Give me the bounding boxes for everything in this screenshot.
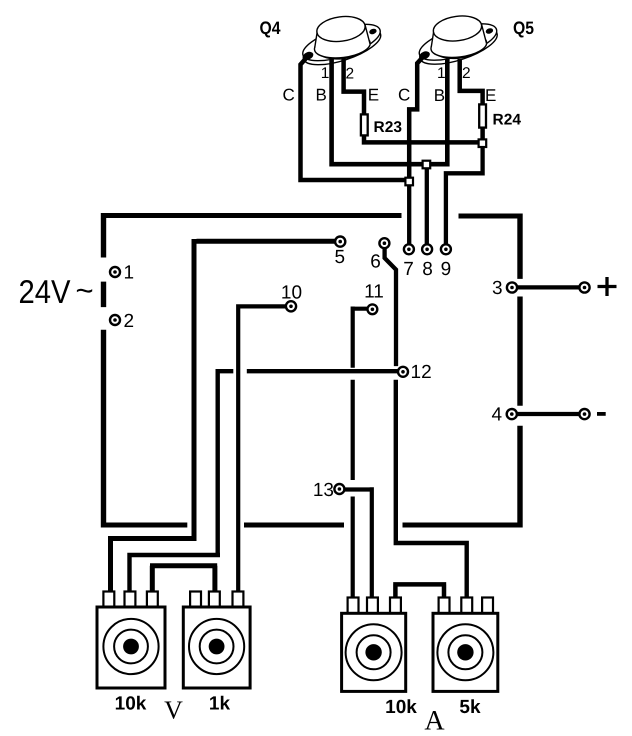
svg-text:7: 7 xyxy=(403,259,414,280)
svg-text:~: ~ xyxy=(76,273,94,308)
node minus output terminal xyxy=(579,409,589,419)
potentiometer A 10k xyxy=(342,598,406,692)
wire R23 bottom to emitter junction square xyxy=(364,135,478,142)
node 12 xyxy=(398,367,408,377)
wire main frame left vertical (with gaps at terminals 1,2) xyxy=(101,213,106,528)
wire node 6 down to node 12 xyxy=(385,248,396,366)
svg-text:A: A xyxy=(424,706,445,736)
node 4 xyxy=(507,409,517,419)
wire node 10 to V-group 1k pot terminal 3 xyxy=(238,304,286,593)
svg-text:B: B xyxy=(434,86,445,105)
svg-text:5: 5 xyxy=(335,247,346,268)
wire Q4 emitter pin 2 to R23 xyxy=(344,59,364,115)
wire Q5 emitter pin 2 to R24 xyxy=(460,59,483,105)
potentiometer V 1k xyxy=(183,592,250,689)
node 6 xyxy=(379,238,389,248)
wire node 3 to plus output xyxy=(517,285,580,289)
potentiometer V 10k xyxy=(97,592,165,689)
node 10 xyxy=(286,301,296,311)
junction square bases (Q4 B / Q5 B / node 8) xyxy=(423,161,431,169)
wire node 4 to minus output xyxy=(517,412,580,416)
wire R24 bottom into emitter junction square xyxy=(480,127,485,139)
wire main frame right vertical (with gaps at terminals 3,4) xyxy=(517,214,522,528)
label minus sign xyxy=(597,412,606,416)
svg-text:R24: R24 xyxy=(493,112,522,129)
wire jumper A-group 10k t3 to 5k t1 xyxy=(393,584,446,599)
svg-text:2: 2 xyxy=(346,66,355,83)
svg-text:Q5: Q5 xyxy=(513,18,534,38)
node 11 xyxy=(368,304,378,314)
wire emitter junction down-left to node 9 xyxy=(446,147,483,244)
transistor Q5 (TO-3 package) xyxy=(415,13,501,72)
transistor Q5 collector dot xyxy=(418,50,431,61)
junction square emitters (R23 / R24 / node 9) xyxy=(479,139,487,147)
svg-text:8: 8 xyxy=(422,259,433,280)
svg-text:5k: 5k xyxy=(459,697,481,718)
svg-text:24V: 24V xyxy=(19,273,71,310)
node 3 xyxy=(507,282,517,292)
resistor R24 xyxy=(479,104,486,127)
wire Q4 collector (case) to junction square, down to node 7 xyxy=(301,56,405,180)
svg-text:C: C xyxy=(398,86,410,105)
svg-text:11: 11 xyxy=(364,282,384,303)
svg-text:2: 2 xyxy=(124,311,135,332)
svg-text:12: 12 xyxy=(411,362,432,383)
svg-text:13: 13 xyxy=(313,480,334,501)
node 2 (24V input terminal) xyxy=(110,315,120,325)
svg-text:9: 9 xyxy=(441,259,452,280)
svg-text:10: 10 xyxy=(281,283,302,304)
wire node 11 down to A-group 10k pot terminal 1 (gaps at crossings) xyxy=(353,307,369,600)
svg-text:E: E xyxy=(485,86,496,105)
wire main frame top-right horizontal xyxy=(459,214,523,219)
svg-text:1: 1 xyxy=(124,263,135,284)
potentiometer A 5k xyxy=(433,598,498,692)
svg-text:10k: 10k xyxy=(115,694,147,715)
wire node 12 left branch to V-group 10k pot terminal 2 (gap at crossing) xyxy=(130,369,399,593)
transistor Q4 collector dot xyxy=(302,50,315,61)
label plus sign xyxy=(598,277,617,296)
svg-text:1: 1 xyxy=(321,65,330,82)
junction square collectors (Q4 C / Q5 C / node 7) xyxy=(405,178,413,186)
wire node 5 to V-group 10k pot terminal 1 xyxy=(111,239,336,593)
node 9 xyxy=(441,244,451,254)
node 1 (24V input terminal) xyxy=(110,267,120,277)
wire jumper V-group 10k t3 to 1k t2 xyxy=(150,566,217,593)
node 13 xyxy=(334,484,344,494)
svg-text:R23: R23 xyxy=(374,119,403,136)
resistor R23 xyxy=(361,114,368,135)
svg-text:2: 2 xyxy=(462,65,471,82)
wire Q4 base pin 1 down and right to base junction xyxy=(332,59,423,164)
svg-text:6: 6 xyxy=(370,252,381,273)
wire node 12 down to A-group 5k pot terminal 2 xyxy=(396,380,467,599)
node plus output terminal xyxy=(579,282,589,292)
wire main frame top-left horizontal xyxy=(101,213,402,218)
wire Q5 base pin 1 down and left to base junction xyxy=(430,59,447,164)
svg-text:C: C xyxy=(283,86,295,105)
wire base junction down to node 8 xyxy=(425,169,429,245)
wire Q5 collector (case) down to collector junction square xyxy=(409,55,424,177)
node 7 xyxy=(404,244,414,254)
svg-text:E: E xyxy=(368,86,379,105)
svg-text:Q4: Q4 xyxy=(260,18,281,38)
svg-text:1k: 1k xyxy=(209,694,231,715)
node 5 xyxy=(335,237,345,247)
svg-text:4: 4 xyxy=(492,405,503,426)
wire main frame bottom horizontal (broken where pot wires cross) xyxy=(101,523,523,528)
svg-text:V: V xyxy=(164,696,183,725)
svg-text:3: 3 xyxy=(492,278,503,299)
svg-text:B: B xyxy=(316,86,327,105)
svg-text:1: 1 xyxy=(437,65,446,82)
wire node 13 to A-group 10k pot terminal 2 xyxy=(344,487,372,599)
node 8 xyxy=(422,244,432,254)
transistor Q4 (TO-3 package) xyxy=(299,14,385,73)
svg-text:10k: 10k xyxy=(385,697,417,718)
